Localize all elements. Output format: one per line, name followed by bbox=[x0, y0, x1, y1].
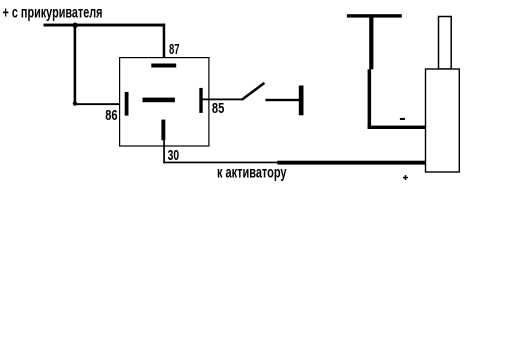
pin 30 contact bar bbox=[161, 120, 165, 141]
wire: top horizontal from lighter feed bbox=[44, 24, 166, 27]
svg-text:+ с прикуривателя: + с прикуривателя bbox=[3, 4, 103, 21]
pin 87 contact bar bbox=[151, 64, 176, 68]
wire: switch fixed contact lead bbox=[265, 99, 299, 101]
svg-text:85: 85 bbox=[212, 100, 224, 117]
pin 86 contact bar bbox=[125, 92, 129, 116]
actuator A1 body bbox=[426, 69, 460, 172]
wire: pin 30 down lead bbox=[163, 140, 165, 163]
wire: horizontal to pin 86 bbox=[74, 103, 125, 105]
wire: vertical drop from junction to pin 86 branch bbox=[74, 25, 77, 104]
ground/chassis top bar bbox=[347, 14, 402, 17]
relay coil/common center bar bbox=[143, 98, 175, 103]
node: junction dot at pin 86 branch corner bbox=[73, 101, 77, 105]
wire: vertical from ground bar (lower) bbox=[368, 69, 372, 129]
wire: minus lead into actuator bbox=[368, 126, 428, 129]
svg-text:87: 87 bbox=[169, 41, 180, 58]
svg-text:30: 30 bbox=[168, 147, 180, 164]
svg-text:к активатору: к активатору bbox=[217, 164, 287, 181]
switch SW1 lever bbox=[242, 83, 265, 100]
svg-text:86: 86 bbox=[105, 107, 117, 124]
wire: vertical from ground bar (upper) bbox=[369, 16, 373, 69]
wire: bottom run to activator (thick part) bbox=[277, 161, 427, 165]
actuator plunger rod bbox=[439, 17, 452, 70]
switch fixed terminal bar bbox=[299, 86, 304, 116]
wire: vertical drop from top wire to pin 87 bbox=[163, 24, 166, 65]
pin 85 contact bar bbox=[199, 88, 202, 113]
wire: bottom run to activator (thin part) bbox=[163, 162, 277, 164]
relay K1 body bbox=[120, 58, 209, 146]
node: junction dot on top wire bbox=[72, 23, 77, 28]
label: plus bbox=[403, 177, 408, 179]
wire: from pin 85 to switch bbox=[203, 99, 243, 101]
label: minus bbox=[400, 118, 405, 120]
